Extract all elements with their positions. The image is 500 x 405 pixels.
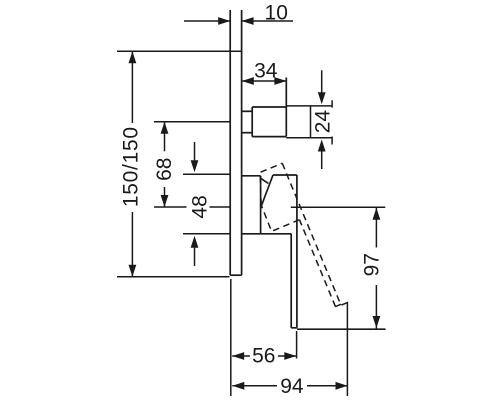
10 dimension left arrow tail (184, 20, 230, 22)
svg-text:48: 48 (189, 195, 212, 218)
150/150 bottom extension line (117, 276, 230, 278)
wall plate bottom (230, 274, 241, 276)
svg-text:94: 94 (280, 375, 304, 398)
arrowhead 10 left (at wall right face) (242, 17, 254, 25)
24 reference line bottom (286, 137, 332, 139)
94 right extension line with tail (342, 303, 348, 396)
97 bottom reference line (297, 328, 386, 330)
48 dimension arrow tails (outside) (194, 142, 196, 163)
48 top extension line (183, 173, 230, 175)
svg-text:24: 24 (311, 110, 334, 134)
arrowhead 97 up (373, 208, 381, 220)
arrowhead 10 right (at wall left face) (218, 17, 230, 25)
arrowhead 48 down (top, outside) (191, 160, 199, 172)
ghost knob bottom edge and base (261, 194, 300, 232)
arrowhead 94 left (232, 382, 244, 390)
body bottom edge (242, 233, 292, 235)
56 dimension line (gap for text) (232, 355, 250, 357)
arrowhead 150/150 up (129, 51, 137, 63)
ghost lever end cap (335, 304, 341, 307)
56 right extension line (296, 331, 298, 359)
wall plate left edge (229, 10, 231, 275)
arrowhead 97 down (373, 316, 381, 328)
ghost knob diagonal and top edge (250, 163, 294, 205)
svg-text:56: 56 (252, 344, 275, 367)
arrowhead 56 right (284, 352, 296, 360)
68 dimension line (gap for text) (164, 122, 166, 152)
arrowhead 24 up (bottom, outside) (318, 140, 326, 152)
arrowhead 56 left (232, 352, 244, 360)
arrowhead 94 right (336, 382, 348, 390)
150/150 dimension line (gap for text) (131, 51, 133, 123)
handle knob top edge (273, 174, 297, 176)
arrowhead 68 down (161, 195, 169, 207)
cartridge axis extension line left (68 bottom), gap behind 48 text (154, 206, 187, 208)
svg-text:97: 97 (361, 253, 384, 276)
ghost lever left edge (299, 220, 335, 307)
handle right edge / lever right (296, 175, 298, 328)
24 reference line top (286, 105, 332, 107)
arrowhead 24 down (top, outside) (318, 92, 326, 104)
arrowhead 48 up (bottom, outside) (191, 236, 199, 248)
svg-text:34: 34 (254, 59, 278, 82)
97 dimension line (gap for text) (375, 207, 377, 247)
34 dimension line (242, 80, 287, 82)
body top edge (242, 175, 261, 177)
24 dimension end ticks at right (331, 100, 333, 107)
handle skirt line (261, 178, 269, 183)
wall plate right edge (241, 10, 243, 275)
56 left extension line (230, 279, 232, 396)
svg-text:150/150: 150/150 (119, 126, 142, 207)
spout connector top (242, 110, 253, 112)
24 dimension line stub (left of text) (310, 106, 312, 138)
lever bottom cap (291, 327, 297, 329)
handle knob diagonal edge (262, 175, 274, 206)
body right edge (260, 176, 262, 234)
94 dimension line (gap for text) (232, 385, 277, 387)
arrowhead 34 left (242, 77, 254, 85)
svg-text:10: 10 (265, 1, 288, 24)
spout connector bottom (242, 132, 253, 134)
spout axis extension line (68 top) (154, 121, 230, 123)
ghost lever right edge (282, 163, 340, 304)
150/150 top extension line (117, 50, 243, 52)
dashed handle ghost (open position), rotated about cartridge axis (249, 163, 341, 318)
arrowhead 34 right (274, 77, 286, 85)
cartridge axis extension line right (97 top ref) (291, 206, 386, 208)
svg-text:68: 68 (153, 158, 176, 181)
24 dimension arrow tails (outside) (321, 70, 323, 93)
arrowhead 68 up (161, 122, 169, 134)
spout box bottom edge (252, 136, 286, 138)
48 bottom extension line (183, 233, 230, 235)
lever left edge (290, 234, 292, 328)
arrowhead 150/150 down (129, 265, 137, 277)
10 dimension right arrow tail (242, 20, 293, 22)
spout box top edge (252, 106, 286, 108)
spout box left edge (251, 107, 253, 137)
spout box right edge extended up to 34 dim (285, 78, 287, 137)
